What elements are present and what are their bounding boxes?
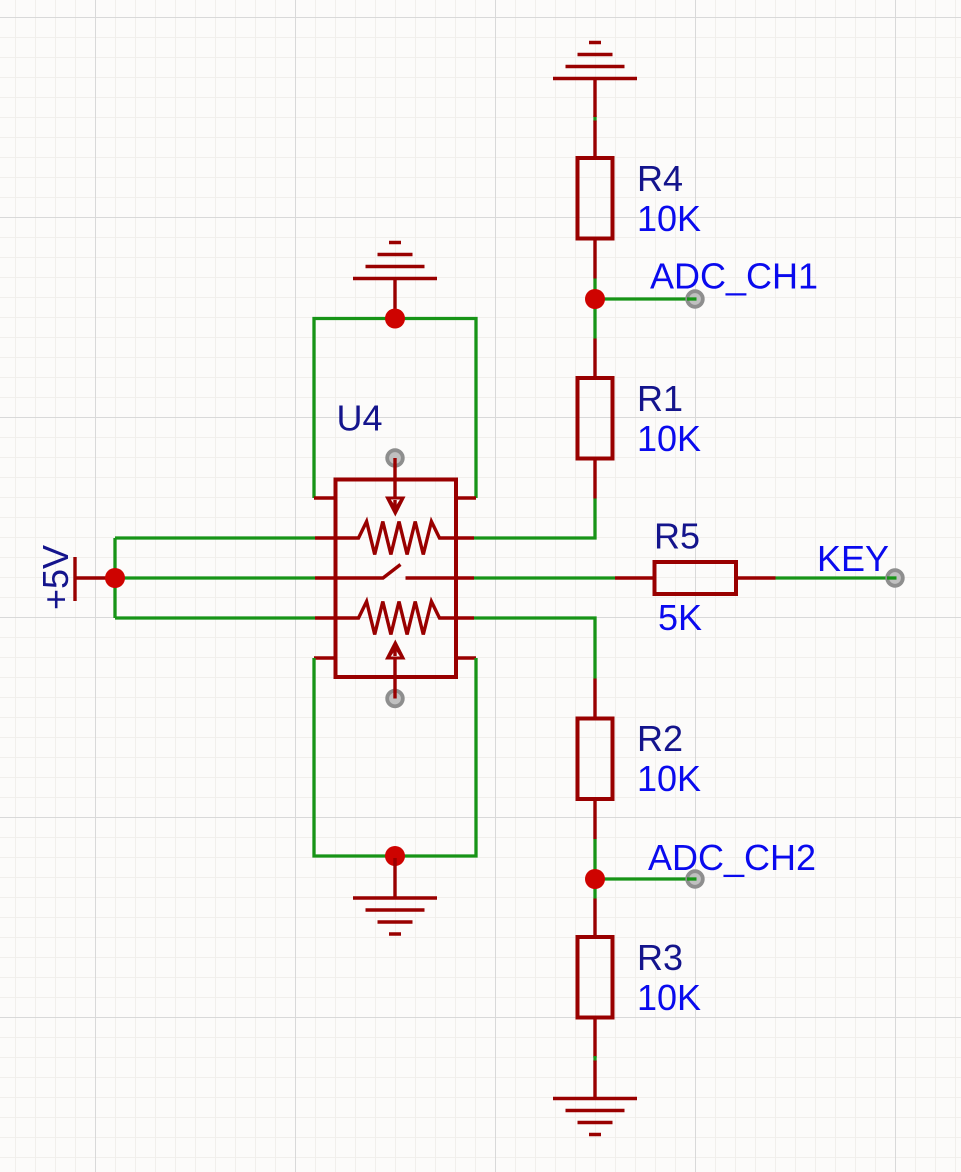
wire junction to R3	[593, 879, 596, 899]
svg-text:ADC_CH2: ADC_CH2	[648, 837, 816, 878]
svg-text:R4: R4	[637, 158, 683, 199]
svg-text:U4: U4	[337, 398, 383, 439]
svg-text:10K: 10K	[637, 977, 701, 1018]
junction node +5V	[105, 568, 125, 588]
wire ground to R4	[593, 116, 596, 122]
wire bottom loop U4 to ground	[314, 658, 476, 856]
value 10K	[637, 198, 701, 239]
wire R1 to U4 top pot right	[474, 499, 595, 539]
wire junction to R1	[593, 299, 596, 339]
U4 switch	[336, 565, 474, 579]
svg-text:R3: R3	[637, 937, 683, 978]
R5 pin 1 lead	[615, 576, 655, 579]
U4 wiper pin circle (top)	[387, 450, 403, 466]
net label KEY	[817, 538, 889, 579]
resistor R4	[578, 158, 613, 239]
net pin circle KEY	[887, 570, 903, 586]
U4 potentiometer element (top)	[336, 522, 456, 555]
wire R4 to junction	[593, 279, 596, 300]
wire to U4 bottom pot left	[115, 616, 315, 619]
wire ADC_CH1	[595, 297, 695, 300]
wire ADC_CH2	[595, 877, 695, 880]
svg-text:R5: R5	[654, 516, 700, 557]
junction node U4 bottom	[385, 846, 405, 866]
wire R3 to ground	[593, 1056, 596, 1062]
R5 pin 2 lead	[736, 576, 776, 579]
svg-text:5K: 5K	[658, 597, 702, 638]
ground stem (bottom middle)	[393, 858, 396, 898]
resistor R2	[578, 719, 613, 800]
U4 pin stubs right	[455, 498, 476, 658]
resistor R3	[578, 937, 613, 1018]
value 10K	[637, 418, 701, 459]
net pin circle ADC_CH2	[687, 871, 703, 887]
wire R5 to KEY	[776, 576, 896, 579]
ground stem (bottom right)	[593, 1061, 596, 1099]
label R5	[654, 516, 700, 557]
svg-text:10K: 10K	[637, 198, 701, 239]
ground stem (top middle)	[393, 279, 396, 315]
R1 pin 2 lead	[593, 459, 596, 499]
U4 wiper pin circle (bottom)	[387, 691, 403, 707]
R2 pin 1 lead	[593, 679, 596, 719]
resistor R5	[655, 562, 737, 594]
label U4	[337, 398, 383, 439]
R3 pin 2 lead	[593, 1018, 596, 1058]
wire to U4 switch left	[115, 576, 315, 579]
net label ADC_CH2	[648, 837, 816, 878]
net label ADC_CH1	[650, 256, 818, 297]
ground (top, above R4)	[553, 43, 637, 79]
label R2	[637, 718, 683, 759]
ground (bottom, below R3)	[553, 1099, 637, 1135]
pot/joystick U4 box	[336, 480, 457, 678]
value 10K	[637, 977, 701, 1018]
U4 pin stubs left	[314, 498, 336, 658]
U4 wiper arrow (top)	[385, 458, 406, 517]
svg-text:ADC_CH1: ADC_CH1	[650, 256, 818, 297]
net pin circle ADC_CH1	[687, 291, 703, 307]
ground (below U4)	[353, 898, 437, 934]
svg-text:+5V: +5V	[35, 545, 76, 610]
label R3	[637, 937, 683, 978]
label R1	[637, 378, 683, 419]
resistor R1	[578, 378, 613, 459]
junction node U4 top	[385, 309, 405, 329]
wire to U4 top pot left	[115, 536, 315, 539]
R4 pin 2 lead	[593, 239, 596, 279]
svg-text:10K: 10K	[637, 418, 701, 459]
ground stem	[593, 79, 596, 118]
wire U4 switch to R5	[474, 576, 615, 579]
label R4	[637, 158, 683, 199]
U4 potentiometer element (bottom)	[336, 602, 456, 635]
svg-text:10K: 10K	[637, 758, 701, 799]
wire R2 to junction	[593, 839, 596, 879]
wire +5V vertical bus	[113, 538, 116, 618]
value 5K	[658, 597, 702, 638]
R2 pin 2 lead	[593, 799, 596, 839]
junction node ADC_CH2	[585, 869, 605, 889]
junction node ADC_CH1	[585, 289, 605, 309]
wire top loop to U4 pins	[314, 319, 476, 499]
ground (top, above U4)	[353, 243, 437, 279]
wire U4 bottom pot right to R2	[474, 618, 595, 679]
svg-text:R1: R1	[637, 378, 683, 419]
svg-text:R2: R2	[637, 718, 683, 759]
wire +5V to junction	[106, 576, 115, 579]
value 10K	[637, 758, 701, 799]
label +5V	[35, 545, 76, 610]
R1 pin 1 lead	[593, 339, 596, 379]
svg-text:KEY: KEY	[817, 538, 889, 579]
U4 wiper arrow (bottom)	[385, 640, 406, 699]
R3 pin 1 lead	[593, 899, 596, 938]
power flag +5V	[75, 557, 106, 601]
R4 pin 1 lead	[593, 121, 596, 159]
